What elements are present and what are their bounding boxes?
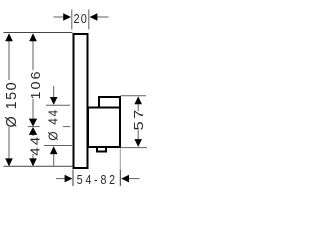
dimension Ø44 extension line bottom (44, 145, 72, 147)
dimension Ø150 line (8, 39, 10, 161)
dimension Ø106 line (32, 39, 34, 120)
extension line top (plate top) (4, 32, 73, 34)
dimension 44 arrows (29, 127, 37, 166)
dimension 44 line (32, 134, 34, 160)
dimension 54-82 extension line left (72, 170, 74, 187)
select button on top of handle (99, 97, 120, 108)
centerline at handle axis (28, 126, 70, 128)
svg-text:57: 57 (131, 108, 146, 131)
dimension 54-82 arrows (65, 175, 129, 183)
extension line bottom (plate bottom) (4, 165, 73, 167)
bottom tab under handle (97, 147, 106, 152)
dimension Ø44 line (53, 86, 55, 166)
svg-text:54-82: 54-82 (77, 172, 118, 187)
dimension 57 arrows (134, 96, 142, 146)
dimension 57 extension line bottom (121, 147, 148, 149)
dimension 54-82 extension line right (119, 149, 121, 187)
dimension Ø106 arrows (29, 33, 37, 126)
svg-text:Ø 150: Ø 150 (4, 81, 20, 128)
svg-text:20: 20 (74, 11, 88, 26)
dimension 20 line left (54, 16, 66, 18)
handle body profile (88, 108, 120, 148)
svg-text:Ø 44: Ø 44 (46, 108, 60, 140)
dimension 20 arrows (63, 13, 97, 21)
svg-text:44: 44 (28, 135, 43, 156)
dimension 20 line right (96, 16, 109, 18)
dimension 54-82 line right (128, 178, 140, 180)
plate profile (escutcheon side view) (74, 34, 88, 168)
svg-text:106: 106 (28, 70, 43, 100)
dimension Ø44 extension line top (46, 104, 70, 106)
dimension 20 extension lines (72, 10, 89, 30)
dimension Ø44 arrows (50, 97, 58, 154)
dimension 54-82 line left (56, 178, 67, 180)
dimension 57 extension line top (121, 95, 147, 97)
dimension Ø150 arrows (5, 33, 13, 166)
dimension 57 line (137, 103, 139, 140)
